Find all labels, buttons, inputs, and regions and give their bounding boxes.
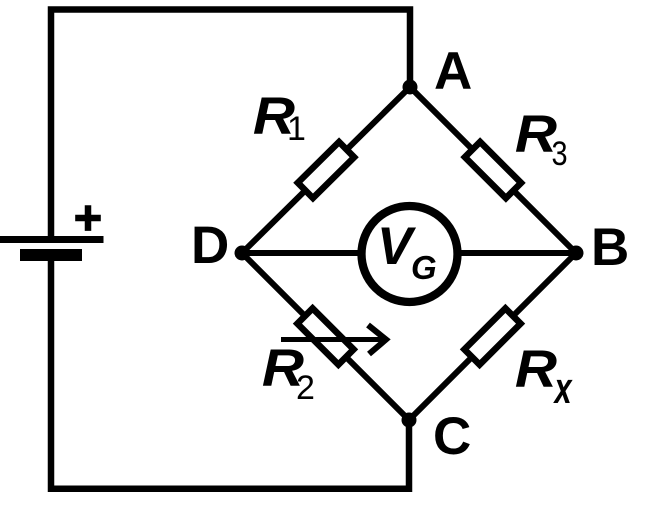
battery polarity + sign xyxy=(75,205,101,231)
svg-text:R: R xyxy=(515,339,557,398)
R2 wiper arrow xyxy=(281,325,386,354)
galvanometer U1 circle xyxy=(362,206,458,302)
label R1 xyxy=(253,86,295,145)
label Rx xyxy=(515,339,557,398)
wire galvanometer branch D to B xyxy=(242,250,576,256)
wire A to B (R3 branch) xyxy=(410,87,576,253)
node A junction dot xyxy=(403,80,418,95)
battery BT1 negative short plate xyxy=(20,249,82,261)
wire battery negative down to bottom-left corner, across and up to node C xyxy=(51,258,409,489)
svg-text:3: 3 xyxy=(552,134,568,173)
node B junction dot xyxy=(569,246,584,261)
wire D to A (R1 branch) xyxy=(242,87,410,253)
svg-text:A: A xyxy=(434,42,472,101)
svg-text:B: B xyxy=(591,218,629,277)
svg-text:C: C xyxy=(433,407,471,466)
wire C to D (R2 branch) xyxy=(242,253,409,420)
resistor R1 body xyxy=(298,142,354,198)
resistor R2 body (variable) xyxy=(297,308,353,364)
svg-text:2: 2 xyxy=(296,369,315,407)
svg-text:D: D xyxy=(191,216,229,275)
wire B to C (Rx branch) xyxy=(409,253,576,420)
label R2 xyxy=(262,338,304,397)
resistor R3 body xyxy=(465,142,521,198)
svg-text:G: G xyxy=(411,249,437,286)
node C junction dot xyxy=(402,413,417,428)
resistor Rx body xyxy=(464,308,520,364)
wire battery positive to top-left corner and across to node A drop xyxy=(51,10,410,238)
node D junction dot xyxy=(235,246,250,261)
svg-text:1: 1 xyxy=(287,110,306,148)
svg-text:x: x xyxy=(553,365,573,414)
label R3 xyxy=(515,104,557,163)
battery BT1 positive long plate xyxy=(0,236,104,243)
